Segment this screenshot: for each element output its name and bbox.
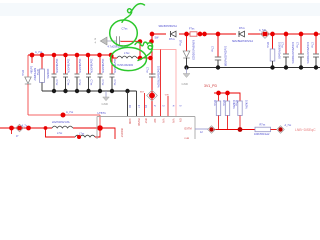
svg-text:10u/16v/20%: 10u/16v/20% <box>101 59 104 74</box>
svg-text:D7xx: D7xx <box>239 27 245 30</box>
wire red top bus (y=34) <box>152 33 320 35</box>
svg-text:C7xx: C7xx <box>122 26 129 30</box>
svg-text:C7xx: C7xx <box>211 46 214 52</box>
annotation circle around L7xx <box>111 47 147 70</box>
capacitor C (x=88.5) <box>86 55 93 91</box>
svg-text:100n/50v/X7R/20%: 100n/50v/X7R/20% <box>291 42 294 64</box>
svg-text:A_7xx: A_7xx <box>259 29 266 32</box>
svg-text:100K/5%: 100K/5% <box>46 69 49 80</box>
resistor R7xx (horizontal, 255-270.5) <box>254 124 271 137</box>
svg-text:22uH/20%/1.8A: 22uH/20%/1.8A <box>52 121 70 124</box>
svg-text:VIN: VIN <box>162 119 165 123</box>
svg-text:A_7xx: A_7xx <box>285 124 292 127</box>
svg-text:R7xx: R7xx <box>222 100 225 106</box>
ground symbol (left bus, x=106) <box>103 91 110 101</box>
svg-text:BOOST: BOOST <box>120 129 123 138</box>
wire vertical x=100 <box>99 115 101 128</box>
svg-text:100K/5%/1w16: 100K/5%/1w16 <box>278 42 281 59</box>
wire stubs to IC pins <box>144 93 146 117</box>
svg-text:6.8V/5%/SOD123: 6.8V/5%/SOD123 <box>192 40 195 60</box>
decorative top band <box>0 3 320 16</box>
capacitor C7xx (x=218) <box>211 34 227 68</box>
svg-text:C7xx: C7xx <box>101 80 104 86</box>
svg-text:PGND: PGND <box>137 119 140 126</box>
svg-text:10u/16v/20%: 10u/16v/20% <box>78 59 81 74</box>
svg-text:L7xx: L7xx <box>57 132 63 135</box>
svg-text:B5T: B5T <box>140 92 145 94</box>
node dots + fuse F7xx <box>184 32 189 37</box>
svg-text:C7xx: C7xx <box>310 42 313 48</box>
svg-text:R7xx: R7xx <box>213 100 216 106</box>
test point diamond (280.5,129.5) <box>277 126 285 134</box>
svg-text:LNB: LNB <box>184 137 189 140</box>
svg-text:C7xx: C7xx <box>113 80 116 86</box>
svg-text:C7xx: C7xx <box>67 80 70 86</box>
capacitor C7xx (x=316) <box>310 34 319 68</box>
connector pad red square with diamond (265,34) <box>259 29 269 38</box>
svg-text:10u/16v/20%: 10u/16v/20% <box>90 59 93 74</box>
svg-text:A_7xx: A_7xx <box>66 110 74 114</box>
svg-text:L7xx: L7xx <box>124 51 130 55</box>
svg-text:C7xx: C7xx <box>90 80 93 86</box>
svg-text:EN: EN <box>179 119 182 123</box>
svg-text:BST: BST <box>144 119 147 124</box>
inductor L7xx (top path y=128) <box>52 121 73 135</box>
svg-text:100K/5%/1w2: 100K/5%/1w2 <box>254 133 270 136</box>
node dot (240,129.5) <box>238 127 243 132</box>
zener diode D7xx (x=186.5) <box>179 34 195 68</box>
resistor R7xx (ladder, x=42) <box>41 55 43 69</box>
inductor L7xx (series, y=58) <box>113 51 152 67</box>
node big dot (100,128) <box>97 125 103 131</box>
svg-text:A_7x: A_7x <box>22 124 28 127</box>
node dots on VIN bus <box>30 53 114 58</box>
capacitor C7xx (series, x=118) <box>107 26 140 48</box>
svg-text:EXTM: EXTM <box>185 126 192 130</box>
wire red LNB row (y=129.5) <box>214 129 255 131</box>
svg-text:GND: GND <box>128 119 131 125</box>
svg-text:10K/5%: 10K/5% <box>244 100 247 110</box>
capacitor C7xx (x=152 vertical) <box>145 66 159 88</box>
wire black GND bus right (y=67.5) <box>187 67 320 69</box>
capacitor C (x=65.5) <box>63 55 70 91</box>
svg-text:SW: SW <box>153 119 156 124</box>
svg-text:C7xx: C7xx <box>295 42 298 48</box>
wire red bus VIN left (y=55) <box>28 54 113 56</box>
wire black GND bus left (y=91) <box>42 90 137 92</box>
wire black GND pins to IC <box>128 91 137 117</box>
capacitor C (x=100) <box>98 55 105 91</box>
svg-text:3V1_PD: 3V1_PD <box>204 84 218 88</box>
diode D7xx (left vertical chain, x=28) <box>27 55 29 77</box>
diode D7xx (first, x=174) <box>166 30 179 41</box>
capacitor C (x=112) <box>110 55 117 91</box>
svg-text:LNB~DiSEqC: LNB~DiSEqC <box>295 128 316 132</box>
capacitor C (x=54) <box>52 55 59 91</box>
wire stub node x=32 <box>31 55 33 63</box>
node dots on right GND bus <box>184 65 318 69</box>
svg-text:GND: GND <box>102 102 108 106</box>
svg-text:C7xx: C7xx <box>78 80 81 86</box>
svg-text:F7xx: F7xx <box>189 28 195 31</box>
test point diamond (19.5,128) <box>16 124 24 132</box>
annotation circle around C7xx <box>110 20 138 46</box>
wire vertical x=152 (main feed) <box>151 34 153 117</box>
inductor L7xx (lower parallel path y=137) <box>46 128 101 139</box>
node dot (63,115) <box>61 113 66 118</box>
svg-text:VIN: VIN <box>172 119 175 123</box>
wire pink EXT feed <box>153 50 176 117</box>
resistor R7xx (x=227.5) <box>222 93 235 130</box>
capacitor C7xx (x=286) <box>280 34 294 68</box>
svg-text:BAT54/30V: BAT54/30V <box>33 68 36 81</box>
regulator U7xx LT6xx box <box>97 111 195 139</box>
svg-text:SML/50/H/30V/1A: SML/50/H/30V/1A <box>159 25 178 28</box>
svg-text:1u/16v: 1u/16v <box>30 66 33 74</box>
svg-text:L7xx: L7xx <box>79 132 85 135</box>
svg-text:R7xx: R7xx <box>234 100 237 106</box>
svg-text:R7xx: R7xx <box>260 124 266 127</box>
node dot (45,128) <box>44 126 48 130</box>
svg-text:C7xx: C7xx <box>55 80 58 86</box>
node dots bottom row <box>9 126 14 131</box>
resistor R7xx (x=218.5) <box>213 93 221 130</box>
svg-text:R7xx: R7xx <box>266 42 269 48</box>
svg-text:D7xx: D7xx <box>169 38 175 41</box>
wire red 3V1_PD (y=93) <box>214 93 240 101</box>
svg-text:100n/50v/X7R/20%: 100n/50v/X7R/20% <box>306 42 309 64</box>
annotation squiggle top <box>122 4 145 23</box>
wire red A_7xx row (y=115) <box>28 114 100 116</box>
wire stub x=11.5 <box>11 128 13 134</box>
svg-text:A_7xx: A_7xx <box>35 50 43 54</box>
annotation loop between circles <box>135 42 153 60</box>
test point diamond (211.5,129.5) <box>208 126 216 134</box>
svg-text:VIN: VIN <box>165 95 169 97</box>
svg-text:C7xx: C7xx <box>145 67 148 73</box>
resistor R7xx (x=240) <box>234 100 247 130</box>
svg-text:10u/16v/20%: 10u/16v/20% <box>55 59 58 74</box>
test point big dot (152,95.5) <box>147 90 158 101</box>
svg-text:SML/5E1H/40V/1A: SML/5E1H/40V/1A <box>232 40 253 43</box>
pin numbers (blue, above edge, rotated) <box>128 105 182 108</box>
node dot (28.5,128) <box>26 126 31 131</box>
capacitor C7xx (x=301) <box>295 34 309 68</box>
pin names (red, inside box, rotated) <box>120 119 181 138</box>
node dots center <box>138 39 143 44</box>
svg-text:GND: GND <box>182 82 188 86</box>
svg-text:10u/16v/20%: 10u/16v/20% <box>67 59 70 74</box>
svg-text:D7xx: D7xx <box>179 40 182 46</box>
ground symbol (right bus, x=186.5) <box>183 68 190 78</box>
svg-text:D7xx: D7xx <box>21 70 24 76</box>
diode D7xx (second, x=242) <box>232 27 253 43</box>
svg-text:LT6?1: LT6?1 <box>98 111 107 115</box>
svg-text:10u/25v/20%/X5R: 10u/25v/20%/X5R <box>223 46 226 66</box>
svg-text:C7xx: C7xx <box>280 42 283 48</box>
wire vertical x=140 (cap/ind join) <box>139 42 141 59</box>
capacitor C (x=77) <box>75 55 82 91</box>
svg-text:?uH/1.8A/30%: ?uH/1.8A/30% <box>117 64 134 67</box>
node dots on GND bus <box>52 89 130 93</box>
resistor R7xx (x=272.5) <box>266 34 281 68</box>
wire red bottom row (y=128) <box>0 128 115 139</box>
svg-text:100n/25v/X7R/10%: 100n/25v/X7R/10% <box>157 66 160 88</box>
